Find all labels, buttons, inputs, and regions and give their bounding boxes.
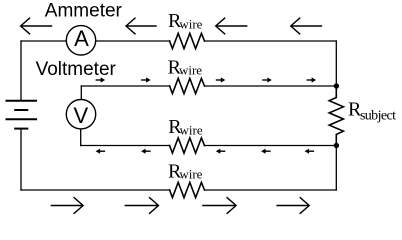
resistor R_subject (vertical) — [329, 86, 343, 146]
svg-text:Voltmeter: Voltmeter — [36, 59, 117, 80]
wire left vertical upper (to battery) — [20, 41, 22, 101]
resistor R_wire (upper middle row) — [170, 78, 205, 93]
svg-text:V: V — [73, 103, 88, 128]
wire ammeter-to-Rwire — [96, 40, 170, 42]
wire right vertical lower — [335, 146, 337, 191]
small current arrow right #3 (upper sense wire) — [216, 77, 226, 82]
wire voltmeter sense lower-left — [81, 145, 170, 147]
resistor R_wire (top row) — [170, 33, 205, 48]
small current arrow right #1 (upper sense wire) — [96, 77, 106, 82]
wire bottom-left segment — [21, 189, 170, 191]
current arrow big left #2 (top row) — [126, 18, 157, 35]
voltmeter V1 — [66, 100, 95, 129]
small current arrow right #4 (upper sense wire) — [262, 77, 272, 82]
wire voltmeter top lead — [80, 86, 82, 100]
small current arrow left #1 (lower sense wire) — [96, 149, 106, 154]
svg-text:A: A — [74, 26, 89, 51]
resistor R_wire (bottom row) — [170, 182, 205, 197]
wire voltmeter sense lower-right — [205, 145, 337, 147]
wire left vertical lower (from battery) — [20, 129, 22, 190]
battery B1 — [6, 101, 38, 129]
current arrow big right #2 (bottom row) — [125, 197, 159, 214]
current arrow big left #1 (top row) — [21, 18, 53, 35]
ammeter A1 — [66, 26, 95, 55]
current arrow big right #4 (bottom row) — [276, 197, 309, 214]
small current arrow right #2 (upper sense wire) — [141, 77, 151, 82]
current arrow big right #1 (bottom row) — [51, 197, 83, 214]
node junction dot top (R_subject top terminal) — [334, 83, 339, 88]
wire top-right segment — [205, 40, 337, 42]
small current arrow left #3 (lower sense wire) — [216, 149, 226, 154]
wire voltmeter sense upper-left — [81, 85, 169, 87]
svg-text:Ammeter: Ammeter — [45, 0, 123, 21]
small current arrow left #2 (lower sense wire) — [141, 149, 151, 154]
wire voltmeter sense upper-right — [205, 85, 337, 87]
current arrow big left #4 (top row) — [291, 18, 322, 35]
wire right vertical upper — [335, 41, 337, 86]
current arrow big right #3 (bottom row) — [202, 197, 236, 214]
small current arrow right #5 (upper sense wire) — [307, 77, 317, 82]
small current arrow left #4 (lower sense wire) — [261, 149, 271, 154]
node junction dot bottom (R_subject bottom terminal) — [334, 143, 339, 148]
resistor R_wire (lower middle row) — [170, 138, 205, 153]
wire top-left segment — [21, 40, 66, 42]
current arrow big left #3 (top row) — [216, 18, 248, 35]
wire voltmeter bottom lead — [80, 129, 82, 146]
wire bottom-right segment — [205, 189, 337, 191]
small current arrow left #5 (lower sense wire) — [305, 149, 315, 154]
